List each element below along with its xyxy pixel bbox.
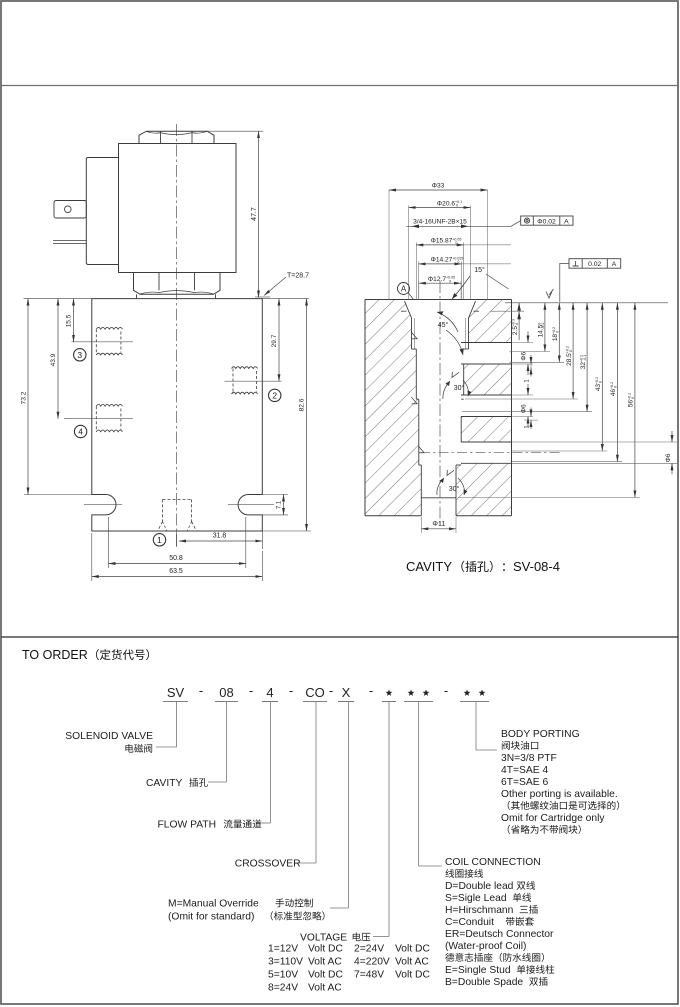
svg-text:-: - — [369, 683, 373, 698]
svg-text:Other porting is available.: Other porting is available. — [501, 789, 618, 800]
svg-text:5=10V: 5=10V — [268, 970, 298, 981]
svg-text:T=28.7: T=28.7 — [287, 273, 309, 280]
svg-text:15°: 15° — [474, 266, 485, 274]
svg-text:Volt DC: Volt DC — [395, 970, 430, 981]
svg-text:SOLENOID VALVE: SOLENOID VALVE — [65, 731, 153, 742]
svg-text:14.50-0.2: 14.50-0.2 — [537, 323, 545, 338]
svg-text:-: - — [329, 683, 333, 698]
svg-text:Φ15.87+0.050: Φ15.87+0.050 — [431, 237, 462, 245]
svg-text:47.7: 47.7 — [251, 207, 258, 221]
svg-text:Φ14.27+0.0250: Φ14.27+0.0250 — [431, 256, 464, 264]
svg-text:Volt DC: Volt DC — [308, 970, 343, 981]
svg-text:D=Double lead: D=Double lead — [445, 881, 514, 892]
svg-text:Φ6: Φ6 — [521, 404, 528, 413]
svg-text:CAVITY: CAVITY — [146, 778, 183, 789]
svg-text:3N=3/8 PTF: 3N=3/8 PTF — [501, 753, 557, 764]
svg-text:(Omit for standard): (Omit for standard) — [168, 912, 254, 923]
svg-text:A: A — [401, 285, 407, 294]
svg-text:COIL CONNECTION: COIL CONNECTION — [445, 857, 541, 868]
svg-text:E=Single Stud: E=Single Stud — [445, 965, 511, 976]
svg-text:30°: 30° — [449, 485, 460, 493]
svg-text:3=110V: 3=110V — [268, 957, 303, 968]
svg-text:-: - — [289, 683, 293, 698]
svg-text:Volt AC: Volt AC — [308, 983, 342, 994]
svg-text:4: 4 — [266, 685, 273, 700]
svg-text:4=220V: 4=220V — [354, 957, 390, 968]
svg-text:Φ11: Φ11 — [432, 521, 445, 528]
svg-text:Φ0.02: Φ0.02 — [537, 218, 556, 225]
svg-text:50.8: 50.8 — [169, 555, 183, 562]
svg-text:ER=Deutsch Connector: ER=Deutsch Connector — [445, 929, 554, 940]
svg-text:4: 4 — [78, 427, 83, 437]
svg-text:63.5: 63.5 — [169, 568, 183, 575]
svg-text:CROSSOVER: CROSSOVER — [235, 859, 301, 870]
svg-text:4T=SAE 4: 4T=SAE 4 — [501, 765, 548, 776]
svg-text:VOLTAGE: VOLTAGE — [300, 933, 347, 944]
svg-text:CAVITY: CAVITY — [406, 559, 452, 574]
svg-text:Φ6: Φ6 — [521, 351, 528, 360]
svg-text:08: 08 — [219, 685, 233, 700]
svg-text:Volt DC: Volt DC — [308, 944, 343, 955]
svg-text:43.9: 43.9 — [50, 353, 57, 366]
svg-text:2: 2 — [272, 390, 277, 400]
svg-text:Φ33: Φ33 — [432, 183, 445, 190]
svg-text:29.7: 29.7 — [271, 334, 278, 347]
svg-text:M=Manual Override: M=Manual Override — [168, 899, 259, 910]
svg-text:S=Sigle Lead: S=Sigle Lead — [445, 893, 507, 904]
svg-text:C=Conduit: C=Conduit — [445, 917, 494, 928]
svg-text:7.1: 7.1 — [277, 500, 283, 509]
svg-text:45°: 45° — [438, 321, 449, 329]
svg-text:2=24V: 2=24V — [354, 944, 384, 955]
svg-text:BODY PORTING: BODY PORTING — [501, 729, 580, 740]
svg-text:FLOW PATH: FLOW PATH — [158, 820, 217, 831]
svg-text:3: 3 — [77, 350, 82, 360]
svg-text:Φ12.7+0.050: Φ12.7+0.050 — [428, 276, 455, 284]
svg-text:A: A — [564, 218, 569, 225]
svg-text:-: - — [444, 683, 448, 698]
svg-text:15.5: 15.5 — [66, 314, 73, 327]
svg-text:SV: SV — [167, 685, 185, 700]
svg-text:SV-08-4: SV-08-4 — [513, 559, 560, 574]
svg-text:CO: CO — [305, 685, 325, 700]
svg-text:-: - — [249, 683, 253, 698]
svg-text:TO ORDER: TO ORDER — [22, 648, 88, 662]
svg-text:6T=SAE 6: 6T=SAE 6 — [501, 777, 548, 788]
svg-text:1: 1 — [157, 535, 162, 545]
svg-text:A: A — [612, 261, 617, 268]
svg-text:7=48V: 7=48V — [354, 970, 384, 981]
svg-text:Volt AC: Volt AC — [395, 957, 429, 968]
svg-text:X: X — [342, 685, 351, 700]
svg-text:73.2: 73.2 — [21, 391, 28, 404]
svg-text:Volt DC: Volt DC — [395, 944, 430, 955]
svg-text:31.8: 31.8 — [213, 533, 227, 540]
svg-text:B=Double Spade: B=Double Spade — [445, 977, 523, 988]
svg-text:(Water-proof Coil): (Water-proof Coil) — [445, 941, 526, 952]
svg-text:Φ6: Φ6 — [665, 453, 672, 462]
svg-text:8=24V: 8=24V — [268, 983, 298, 994]
svg-text:0.02: 0.02 — [588, 261, 601, 268]
svg-text:Omit for Cartridge only: Omit for Cartridge only — [501, 813, 605, 824]
svg-text:Volt AC: Volt AC — [308, 957, 342, 968]
svg-text:3/4-16UNF-2B×15: 3/4-16UNF-2B×15 — [413, 219, 467, 226]
svg-text:82.6: 82.6 — [299, 398, 306, 411]
svg-text:30°: 30° — [454, 384, 465, 392]
svg-text:-: - — [199, 683, 203, 698]
svg-text:1=12V: 1=12V — [268, 944, 298, 955]
svg-text:H=Hirschmann: H=Hirschmann — [445, 905, 514, 916]
